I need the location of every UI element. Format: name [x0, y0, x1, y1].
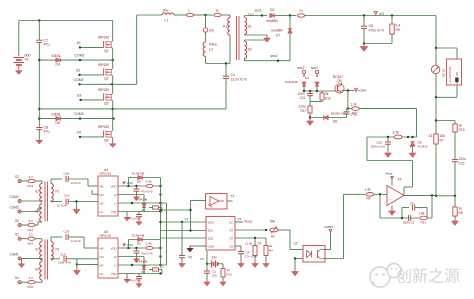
label R fb ref [421, 221, 427, 225]
label sec2 [271, 54, 278, 58]
transformer TX3 P coil [51, 184, 53, 202]
wire TX3 P bottom link [51, 200, 62, 202]
wire COM2 to coil [21, 200, 42, 201]
label C18 value [71, 239, 81, 243]
svg-text:1u: 1u [299, 9, 303, 13]
svg-text:Q2: Q2 [104, 77, 109, 81]
capacitor C 1n [413, 205, 415, 211]
label L1 ref [165, 19, 169, 23]
svg-text:IDEAL: IDEAL [52, 113, 62, 117]
resistor R 1.3k [366, 193, 374, 197]
svg-text:D1N4148: D1N4148 [135, 260, 148, 264]
label U5 pin LI [114, 263, 117, 267]
label U1 pin RT [230, 228, 234, 232]
svg-text:1u: 1u [216, 9, 220, 13]
capacitor C2 [204, 271, 210, 273]
node bus u5 265 [159, 264, 161, 266]
svg-text:X4: X4 [398, 178, 402, 182]
op-amp X4 [387, 186, 404, 206]
label TX3 S2 [35, 210, 39, 214]
svg-text:COM1: COM1 [10, 252, 19, 256]
wire SS to C4 [235, 246, 241, 252]
svg-text:(m): (m) [209, 29, 214, 33]
svg-text:U2: U2 [294, 242, 298, 246]
wire mosfet chain drain Q1 [112, 21, 114, 42]
pin sec2 [302, 70, 305, 77]
transformer TX4 S2 coil [40, 262, 42, 280]
pin COM1 left [18, 257, 21, 260]
wire P1 bottom to rail [229, 35, 231, 64]
label V3 ref [200, 257, 204, 261]
label C19 value [58, 261, 71, 265]
label U4 pin HB [100, 184, 104, 188]
svg-text:R23: R23 [459, 128, 465, 132]
label VSS cap u5 [129, 279, 141, 283]
wire C14 to HS [68, 201, 98, 204]
node DT r3 [254, 237, 256, 239]
svg-text:D4: D4 [56, 63, 60, 67]
wire VSS cap lead u4 [138, 212, 140, 215]
diode D5 [56, 116, 60, 120]
ground cap u5 [133, 257, 139, 262]
label Q4 ref [104, 139, 109, 143]
label R8 value [459, 207, 463, 211]
resistor 1k u5 [153, 268, 159, 271]
ground VSS cap u5 [136, 282, 142, 287]
node R8 top [454, 195, 456, 197]
label VO [379, 12, 384, 16]
label VT node [185, 218, 189, 222]
node SD1 x1 [189, 229, 191, 231]
label C22 ref [459, 162, 465, 166]
svg-text:sec1: sec1 [311, 66, 318, 70]
ground cap u4 [133, 195, 139, 200]
svg-text:L1: L1 [165, 19, 169, 23]
wire L2 upper lead [205, 15, 207, 28]
transformer TX3 S1 coil [40, 184, 42, 202]
node S4 bridge [79, 136, 81, 138]
capacitor C21 [307, 94, 313, 96]
node vdd u5 a [127, 247, 129, 249]
wire GND pin lead [190, 245, 206, 247]
wire S1 bottom center tap [245, 33, 268, 36]
svg-text:IRF630: IRF630 [98, 63, 109, 67]
diode boot u5 [138, 237, 142, 241]
wire X1 in link [161, 209, 191, 211]
svg-text:V5: V5 [188, 256, 192, 260]
wire C7 upper lead [38, 21, 40, 41]
node divider branch [435, 119, 437, 121]
diode D2 [270, 13, 274, 17]
resistor R12 [221, 269, 225, 278]
capacitor C7 [36, 40, 42, 42]
label S2 bridge [76, 69, 80, 73]
comparator X1 box [206, 194, 228, 210]
label LI diode ref u5 [142, 270, 146, 274]
label U1 pin SD1 [208, 228, 214, 232]
label pin sec2 [298, 66, 305, 70]
node bus u5 273.5 [159, 272, 161, 274]
transistor Q3 [104, 94, 113, 101]
node bus u5 256.5 [159, 255, 161, 257]
wire L2 bottom corner [206, 56, 231, 63]
resistor R27 1.2k [352, 107, 360, 111]
ground U1 [187, 246, 193, 252]
capacitor C22 [452, 160, 458, 162]
label U4 type [100, 172, 112, 176]
label 3.3 R13 [29, 175, 34, 179]
svg-text:1.2k: 1.2k [351, 102, 357, 106]
wire fb bottom rail [380, 217, 432, 219]
svg-text:50k: 50k [270, 220, 276, 224]
label VDD u5 [127, 243, 134, 247]
ground VSS u5 [124, 278, 130, 283]
wire R7 down [435, 144, 437, 196]
label V1 value [25, 54, 31, 58]
ground below Q4 [109, 142, 116, 148]
label U1 pin GND [208, 244, 216, 248]
wire V3 stub up [206, 251, 208, 264]
svg-text:Q3: Q3 [104, 102, 109, 106]
label U4 pin LI [114, 201, 117, 205]
svg-text:HI: HI [114, 193, 117, 197]
label pin sec1 [311, 66, 318, 70]
capacitor C1 [223, 76, 229, 78]
watermark text [396, 268, 460, 286]
node marker VDD u5 [123, 244, 126, 247]
label probe m [209, 29, 214, 33]
svg-text:R3: R3 [258, 242, 262, 246]
wire COM2 rail [80, 83, 137, 85]
svg-text:S4: S4 [15, 276, 19, 280]
label C8 ref [44, 126, 49, 130]
svg-text:D2: D2 [270, 8, 274, 12]
wire fb up right [431, 195, 433, 218]
label R8 ref [459, 211, 463, 215]
node bus u4 203 [159, 202, 161, 204]
node bus u5 248 [159, 247, 161, 249]
svg-text:S3: S3 [15, 219, 19, 223]
svg-text:+: + [389, 198, 391, 202]
wire VSS row u4 [118, 211, 161, 213]
resistor 3.3 R16 [28, 281, 35, 284]
node rect out [289, 14, 291, 16]
node S2 bridge [78, 74, 80, 76]
resistor 1.8k u4 [146, 184, 153, 187]
wire S1 top to sec rail [245, 16, 263, 18]
svg-text:D1N4148: D1N4148 [285, 80, 298, 84]
svg-text:VT: VT [185, 218, 189, 222]
wire bias rail [304, 90, 337, 92]
svg-text:R27: R27 [352, 111, 358, 115]
node fb split [401, 217, 403, 219]
label sec1 [255, 9, 262, 13]
svg-text:10v: 10v [212, 256, 218, 260]
node VT [181, 221, 183, 223]
diode D4 [56, 58, 60, 62]
label cap u5 [141, 252, 153, 256]
label 3.3k [393, 131, 400, 135]
capacitor C20 [385, 142, 391, 144]
capacitor V5 [179, 256, 185, 258]
ground V5 [179, 262, 186, 268]
svg-text:10k: 10k [440, 134, 446, 138]
node VO at R9 [391, 14, 393, 16]
transformer TX2 secondary S2 [245, 42, 247, 59]
svg-text:10: 10 [227, 268, 231, 272]
watermark logo [370, 264, 403, 288]
wire VT to VDD pin [182, 221, 206, 223]
wire OC stub [235, 221, 243, 223]
label cap u4 [141, 190, 153, 194]
node dot bridge mid rail [38, 108, 40, 110]
label L3 [299, 9, 303, 13]
svg-text:IDEAL: IDEAL [52, 54, 62, 58]
wire 270n lower [346, 114, 348, 118]
wire 1k leads u5 [149, 269, 153, 271]
node tlv a [387, 136, 389, 138]
wire Q5 collector [341, 83, 343, 85]
wire R8 lower lead [454, 216, 456, 219]
optocoupler U2 box [303, 246, 325, 263]
svg-text:R16: R16 [28, 285, 34, 289]
label R12 value [227, 268, 231, 272]
wire branch to R23 [436, 121, 455, 125]
wire S1 to res [21, 238, 27, 240]
label Q2 ref [104, 77, 109, 81]
svg-text:R17: R17 [301, 109, 307, 113]
node RT pot [265, 229, 267, 231]
svg-text:C16: C16 [64, 172, 70, 176]
label U4 pin VSS [111, 210, 117, 214]
svg-text:3.3: 3.3 [29, 276, 34, 280]
wire C6 upper lead [363, 16, 365, 27]
svg-text:1: 1 [188, 9, 190, 13]
shunt U3 TLV431 [410, 142, 415, 147]
label C16 [64, 172, 70, 176]
wire S4 to coil [35, 280, 42, 282]
wire COM1 gnd stub [21, 258, 23, 261]
label 3.3 R15 [29, 233, 34, 237]
node COM3 [79, 117, 81, 119]
node vdd u5 b [135, 247, 137, 249]
node tlv b [407, 136, 409, 138]
wire X1 out stub [227, 200, 233, 202]
ground bias [307, 119, 314, 126]
wire C22 down [454, 162, 456, 196]
wire DT corner to R4 [265, 238, 267, 246]
wire SD1 rail [161, 230, 207, 232]
wire VDD rail u4 [118, 185, 161, 187]
wire emitter rail down [347, 91, 349, 109]
label D2 ref [270, 8, 274, 12]
ground below C8 [36, 138, 43, 144]
svg-text:SD1: SD1 [208, 228, 214, 232]
node C1 top [225, 62, 227, 64]
wire opamp supply up [391, 179, 393, 185]
wire Q2 source to COM2 [112, 76, 114, 85]
wire COM1 to coil [21, 257, 42, 260]
node sec2 [277, 60, 279, 62]
label C1 ref [231, 73, 236, 77]
ground output [360, 44, 368, 52]
svg-text:HIP2101: HIP2101 [100, 234, 112, 238]
svg-text:P1: P1 [56, 248, 60, 252]
node opto cathode [294, 257, 296, 259]
label Rs2 [216, 9, 220, 13]
node marker VDD u4 [123, 182, 126, 185]
label C7 value [44, 43, 50, 47]
label D5 IDEAL [52, 113, 62, 117]
capacitor C18 [66, 234, 68, 240]
wire Q4 gate [80, 136, 104, 138]
diode D3 [315, 82, 319, 86]
wire HI row u5 [118, 257, 144, 266]
label C22 value [459, 157, 467, 161]
svg-text:43: 43 [429, 134, 433, 138]
wire D7 bottom lead [289, 34, 291, 61]
node C6 R9 bottom rail [363, 42, 365, 44]
label D2 value [266, 19, 278, 23]
label R17 ref [301, 109, 307, 113]
label 50k [270, 220, 276, 224]
label R3 value [245, 242, 253, 246]
node bus u4 194.5 [159, 193, 161, 195]
node sec1 [261, 14, 263, 16]
svg-text:DT: DT [230, 236, 234, 240]
svg-text:HIP2101: HIP2101 [100, 172, 112, 176]
wire bottom link C6 R9 [364, 43, 392, 45]
label U4 pin HS [100, 201, 104, 205]
label VDD u4 [127, 181, 134, 185]
svg-text:IRF630: IRF630 [98, 125, 109, 129]
label C2 value [212, 274, 217, 278]
wire R12 lower [222, 277, 224, 280]
label D6 ref [333, 120, 337, 124]
wire C1 upper lead [225, 64, 227, 77]
label Q1 type [98, 36, 109, 40]
svg-text:HS: HS [100, 263, 104, 267]
label V5 [188, 256, 192, 260]
capacitor C4 [238, 252, 244, 254]
diode D1 [302, 82, 306, 86]
label C7 ref [44, 39, 49, 43]
node dot bridge out at mosfets [112, 108, 114, 110]
label COM3 [74, 112, 84, 116]
transformer TX2 core [237, 16, 240, 60]
resistor 3.3 R14 [28, 223, 35, 226]
label R23 value [459, 124, 463, 128]
label 1.2k [351, 102, 357, 106]
label R9 value [396, 24, 401, 28]
transformer TX4 S1 coil [40, 242, 42, 260]
wire V5 lower [181, 258, 183, 262]
pin S2 [18, 180, 21, 183]
svg-text:S2: S2 [248, 48, 252, 52]
svg-text:LI: LI [114, 201, 117, 205]
wire HI row u4 [118, 195, 144, 204]
svg-text:3.3: 3.3 [29, 219, 34, 223]
pin sec1 [315, 70, 318, 77]
svg-text:VSS: VSS [111, 272, 117, 276]
label R7 value [440, 134, 446, 138]
transistor Q5 [335, 84, 344, 93]
svg-text:V3: V3 [200, 257, 204, 261]
node tlv c [411, 136, 413, 138]
wire opto emitter to opamp [322, 194, 344, 258]
svg-text:D6: D6 [333, 120, 337, 124]
ground opto [292, 270, 299, 277]
svg-text:VT: VT [238, 218, 242, 222]
ammeter [431, 65, 439, 73]
transistor Q4 [104, 131, 113, 138]
wire top-left rail [19, 20, 113, 22]
transformer TX3 core [45, 182, 48, 222]
capacitor C19 [64, 256, 66, 262]
svg-text:R4: R4 [269, 249, 273, 253]
wire cap lead u4 [136, 186, 138, 189]
label COM1 [75, 54, 85, 58]
svg-text:C22: C22 [459, 162, 465, 166]
label X4 [398, 178, 402, 182]
svg-text:1k: 1k [459, 207, 463, 211]
pin S4 [18, 281, 21, 284]
wire LI diode lead u4 [143, 207, 145, 211]
label R7 ref [440, 139, 444, 143]
node COM2 [78, 83, 80, 85]
svg-text:R13: R13 [28, 184, 34, 188]
svg-text:mur860: mur860 [271, 29, 283, 33]
wire LI diode lead u5 [143, 269, 145, 273]
potentiometer 50k [270, 227, 278, 234]
node battery branch top [435, 47, 437, 49]
node battery branch bottom [435, 96, 437, 98]
label L2 value [209, 43, 217, 47]
battery V3 [212, 261, 218, 268]
svg-text:1n: 1n [410, 202, 414, 206]
pin S1 [18, 237, 21, 240]
ground HS bottom [73, 269, 80, 276]
node marker VGBRI q5 [354, 89, 357, 92]
wire C4 lower [240, 254, 242, 262]
svg-text:R15: R15 [28, 242, 34, 246]
label VSS cap u4 [129, 217, 141, 221]
svg-text:R14: R14 [28, 228, 34, 232]
svg-text:VO: VO [379, 12, 384, 16]
svg-text:R7: R7 [440, 139, 444, 143]
label U5 pin LO [100, 272, 105, 276]
svg-text:HB: HB [100, 246, 104, 250]
wire X1 out vertical [191, 201, 206, 231]
wire COM2 feed vertical [136, 15, 138, 84]
label U5 pin VDD [111, 246, 117, 250]
node bus1 vt [159, 221, 161, 223]
resistor 3.3 R13 [28, 179, 35, 182]
transformer TX2 primary P1 [228, 18, 230, 36]
node li left u4 [131, 202, 133, 204]
label VGBRI opto [324, 225, 334, 229]
transformer TX3 S2 coil [40, 204, 42, 222]
wire R4 lower [265, 256, 267, 262]
wire COM1 to Q2 drain [112, 60, 114, 68]
svg-text:VDD: VDD [127, 181, 134, 185]
wire VSS cap gnd lead u5 [138, 279, 140, 282]
svg-text:HI: HI [114, 255, 117, 259]
label U4 [104, 168, 108, 172]
label D4 IDEAL [52, 54, 62, 58]
label 3.3 R16 [29, 276, 34, 280]
node opamp out junction [435, 195, 437, 197]
